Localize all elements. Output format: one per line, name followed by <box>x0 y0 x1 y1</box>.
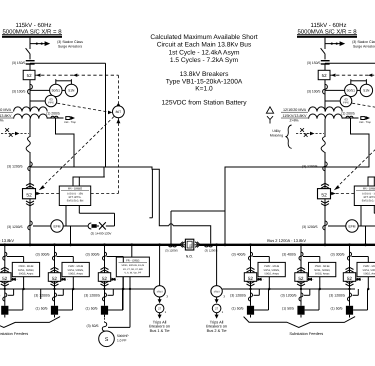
svg-text:Calculated Maximum Available S: Calculated Maximum Available Short <box>150 34 257 41</box>
tie breaker 52 N.O. <box>181 244 186 246</box>
svg-text:Circuit at Each Main 13.8Kv Bu: Circuit at Each Main 13.8Kv Bus <box>157 42 252 49</box>
tie breaker CT left (3) 1200/5 <box>168 245 176 247</box>
feeder at x=4.8 <box>4 246 6 306</box>
feeder CT secondary wire <box>303 256 320 258</box>
svg-text:(3) 50/5: (3) 50/5 <box>86 324 98 328</box>
termination ground wire <box>305 309 319 311</box>
relay box FR-DRG right <box>354 186 375 206</box>
svg-text:52: 52 <box>248 276 254 281</box>
svg-text:Utility: Utility <box>272 129 281 133</box>
termination ground wire <box>8 309 22 311</box>
svg-text:8FT. 8FTG.: 8FT. 8FTG. <box>364 196 375 199</box>
feeder CT <box>249 252 253 260</box>
feeder CT (3) 1200/5 <box>249 293 253 301</box>
svg-text:102/101 - 15N: 102/101 - 15N <box>362 192 375 195</box>
utility source bus left <box>2 33 62 35</box>
svg-text:115KV/13.8KV: 115KV/13.8KV <box>283 114 307 118</box>
feeder breaker 52 <box>0 273 11 282</box>
trip bus wiring right <box>222 288 355 290</box>
feeder at x=54.5 <box>54 246 56 306</box>
svg-text:Kirk - Trap: Kirk - Trap <box>359 121 371 124</box>
feeder CT secondary wire <box>253 256 270 258</box>
wire kirk drop right <box>351 118 370 167</box>
secondary selective tie wiring left <box>105 63 107 167</box>
feeder relay box stub <box>23 277 25 289</box>
dashed 86T trip diagonal to 52 left <box>40 117 114 190</box>
feeder dashed trip arrow <box>307 278 314 280</box>
PT fuse left <box>88 223 91 229</box>
cable termination <box>297 306 304 315</box>
feeder at x=104.5 <box>104 246 106 306</box>
feeder at x=301 <box>300 246 302 306</box>
svg-text:(3) 300/5: (3) 300/5 <box>330 252 344 256</box>
cable termination <box>101 306 108 315</box>
feeder CT <box>299 252 303 260</box>
svg-text:115kV - 60Hz: 115kV - 60Hz <box>16 22 52 29</box>
lockout relay 86T left <box>117 75 119 103</box>
feeder relay box <box>12 262 39 276</box>
svg-text:Bus 2 & Tie: Bus 2 & Tie <box>207 328 227 333</box>
svg-text:(3) 400/5: (3) 400/5 <box>231 252 245 256</box>
feeder dashed trip arrow <box>11 278 18 280</box>
feeder CT (3) 1200/5 <box>348 293 352 301</box>
svg-text:47B/J: 47B/J <box>214 291 220 294</box>
svg-text:12/16/20 MVA: 12/16/20 MVA <box>283 108 307 112</box>
cable termination <box>51 306 58 315</box>
svg-text:51N: 51N <box>68 89 75 93</box>
feeder CT secondary wire <box>57 256 74 258</box>
wire left <box>29 152 31 245</box>
feeder CT secondary stub <box>8 294 14 296</box>
svg-text:(1) 200/5: (1) 200/5 <box>46 112 60 116</box>
svg-text:Bus 2 1200A - 13.8kV: Bus 2 1200A - 13.8kV <box>267 238 306 243</box>
svg-text:50GS, Amps: 50GS, Amps <box>68 273 83 276</box>
svg-text:PWR - MF4k: PWR - MF4k <box>264 265 280 268</box>
svg-text:50GS, Amps: 50GS, Amps <box>264 273 279 276</box>
svg-text:27: 27 <box>158 308 161 311</box>
future-tap dashed arrow right <box>296 133 310 135</box>
cable termination <box>1 306 8 315</box>
feeder dashed trip arrow <box>257 278 264 280</box>
feeder drawout chevrons <box>1 267 9 269</box>
svg-text:52: 52 <box>27 73 32 78</box>
CT (3) 150/5 right <box>321 60 330 62</box>
feeder at x=250.5 <box>250 246 252 306</box>
svg-text:(1) 50/5: (1) 50/5 <box>85 307 97 311</box>
svg-text:Bus 1 & Tie: Bus 1 & Tie <box>150 328 170 333</box>
dashed 63FPX to 86T right <box>352 103 375 112</box>
svg-text:50/51, 50/GN,: 50/51, 50/GN, <box>264 269 280 272</box>
svg-text:Type VB1-15-20kA-1200A: Type VB1-15-20kA-1200A <box>166 78 243 85</box>
feeder CT <box>3 252 7 260</box>
svg-text:PWR - MF4k: PWR - MF4k <box>68 265 84 268</box>
winding config brace right <box>286 125 292 148</box>
feeder drawout chevrons <box>346 267 354 269</box>
dashed control line from breaker left <box>35 74 118 76</box>
winding wye symbol right <box>267 116 273 123</box>
substation feeders brace right <box>244 317 356 328</box>
CT (3) 1200/5 upper right <box>323 162 327 171</box>
svg-text:FR - DRBG: FR - DRBG <box>363 187 375 191</box>
wire right <box>324 63 326 70</box>
breaker 52 115kV left <box>23 70 35 79</box>
svg-text:47B/J: 47B/J <box>157 291 163 294</box>
svg-text:FPX: FPX <box>343 101 349 105</box>
CT (3) 150/5 left <box>26 60 35 62</box>
feeder CT secondary wire <box>352 256 369 258</box>
relay box stubs right <box>360 206 362 227</box>
svg-text:Z=8%: Z=8% <box>290 119 299 123</box>
feeder relay box stub <box>268 277 270 289</box>
svg-text:52: 52 <box>321 192 327 198</box>
feeder relay box <box>309 262 336 276</box>
dashed 86T trip diagonal to 52 right <box>335 117 375 190</box>
relay 51N left <box>65 84 77 96</box>
svg-text:FR - DRBG: FR - DRBG <box>68 187 82 191</box>
termination ground wire <box>58 309 72 311</box>
bus 1 <box>0 244 181 246</box>
breaker 52 main 13.8kV left <box>23 189 36 199</box>
wire below transformer left <box>29 119 31 137</box>
svg-text:(1) 200/5: (1) 200/5 <box>341 112 355 116</box>
feeder CT secondary stub <box>254 294 260 296</box>
svg-text:102/101 - 15N: 102/101 - 15N <box>67 192 83 195</box>
svg-text:1.0 PF: 1.0 PF <box>117 339 126 343</box>
feeder CT <box>348 252 352 260</box>
feeder relay box <box>258 262 285 276</box>
wire CT tap to relay maze left <box>30 62 106 64</box>
svg-text:12/16/20 MVA: 12/16/20 MVA <box>0 108 12 112</box>
svg-text:52: 52 <box>52 276 58 281</box>
relay 51N right <box>360 84 372 96</box>
bus 1 main relay box <box>131 246 133 257</box>
utility source bus right <box>297 33 357 35</box>
cable termination <box>346 306 353 315</box>
svg-text:(3) 150/5: (3) 150/5 <box>307 61 321 65</box>
svg-text:EPM: EPM <box>54 224 61 228</box>
PT feed wire left <box>114 213 116 226</box>
svg-text:(3) 1200/5: (3) 1200/5 <box>329 294 345 298</box>
svg-text:52: 52 <box>322 73 327 78</box>
feeder CT (3) 1200/5 <box>103 293 107 301</box>
svg-text:(3) 1200/5: (3) 1200/5 <box>84 294 100 298</box>
svg-text:1st Cycle - 12.4kA Asym: 1st Cycle - 12.4kA Asym <box>168 49 240 56</box>
svg-text:50/51.51G. BN: 50/51.51G. BN <box>362 200 375 203</box>
svg-text:N.O.: N.O. <box>186 255 193 259</box>
svg-text:(1) 50/5: (1) 50/5 <box>231 307 243 311</box>
svg-text:(3) 150/5: (3) 150/5 <box>12 61 26 65</box>
metering branch with EPM right <box>328 225 346 227</box>
svg-text:Substation Feeders: Substation Feeders <box>0 331 28 336</box>
svg-text:(3) 100/5: (3) 100/5 <box>12 89 26 93</box>
dashed trip line to main breaker left <box>36 193 60 195</box>
svg-text:52: 52 <box>347 276 353 281</box>
wire kirk drop left <box>56 118 75 167</box>
feeder at x=349.5 <box>349 246 351 306</box>
drawout chevrons right <box>321 183 329 185</box>
termination ground wire <box>108 309 122 311</box>
feeder CT secondary wire <box>7 256 24 258</box>
svg-text:52: 52 <box>189 244 193 248</box>
svg-text:(3) 400/5: (3) 400/5 <box>282 252 296 256</box>
cable squiggle right <box>321 137 325 153</box>
svg-text:(3) 300/5: (3) 300/5 <box>35 252 49 256</box>
wire CT tap to relay maze right <box>325 62 375 64</box>
svg-text:52: 52 <box>298 276 304 281</box>
svg-text:Metering: Metering <box>270 134 283 138</box>
svg-text:(3) 1200/5: (3) 1200/5 <box>165 248 178 252</box>
wire left <box>29 80 31 112</box>
breaker 52 115kV right <box>318 70 330 79</box>
svg-text:Surge Arrestors: Surge Arrestors <box>353 44 375 48</box>
svg-text:115KV/13.8KV: 115KV/13.8KV <box>0 114 12 118</box>
feeder dashed trip arrow <box>356 278 363 280</box>
disconnect switch right <box>321 48 325 54</box>
svg-text:13.8kV Breakers: 13.8kV Breakers <box>180 71 229 78</box>
feeder drawout chevrons <box>247 267 255 269</box>
tie breaker CT right (3) 1200/5 <box>204 245 212 247</box>
termination ground wire <box>353 309 367 311</box>
svg-text:(3) 1200/5: (3) 1200/5 <box>281 294 297 298</box>
svg-text:1.5 Cycles - 7.2kA Sym: 1.5 Cycles - 7.2kA Sym <box>170 57 239 64</box>
svg-text:Bus 1 1200A - 13.8kV: Bus 1 1200A - 13.8kV <box>0 238 14 243</box>
wire right <box>324 80 326 112</box>
surge arrestor branch left <box>30 43 49 45</box>
svg-text:FR - GRB3: FR - GRB3 <box>126 259 140 262</box>
svg-text:V, A, W, Var, PF: V, A, W, Var, PF <box>124 272 141 275</box>
transformer T left 12/16/20 MVA <box>14 107 48 112</box>
motor M1 5000HP <box>99 331 115 347</box>
feeder dashed trip arrow <box>111 278 118 280</box>
svg-text:50/51, 50/GN,: 50/51, 50/GN, <box>68 269 84 272</box>
relay circle link left <box>62 89 65 91</box>
svg-text:27: 27 <box>215 308 218 311</box>
svg-text:EPM: EPM <box>349 224 356 228</box>
feeder relay box stub <box>72 277 74 289</box>
svg-text:51N: 51N <box>363 89 370 93</box>
relay box FR-DRG left <box>59 186 90 206</box>
feeder relay box stub <box>122 277 124 289</box>
secondary selective tie wiring right <box>368 176 375 178</box>
CT (3) 1200/5 upper left <box>28 162 32 171</box>
feeder CT secondary stub <box>58 294 64 296</box>
svg-text:(1) 50/5: (1) 50/5 <box>330 307 342 311</box>
svg-text:52: 52 <box>102 276 108 281</box>
svg-text:PWR - MF4k: PWR - MF4k <box>315 265 331 268</box>
svg-text:(3) 1200/5: (3) 1200/5 <box>7 164 23 168</box>
svg-text:FPX: FPX <box>48 101 54 105</box>
feeder relay box stub <box>367 277 369 289</box>
CT (3) 100/5 right <box>323 84 328 94</box>
feeder CT (3) 1200/5 <box>53 293 57 301</box>
svg-text:(1) 50/5: (1) 50/5 <box>35 307 47 311</box>
svg-text:50GS, Amps: 50GS, Amps <box>19 273 34 276</box>
svg-text:Kirk - Trap: Kirk - Trap <box>64 121 76 124</box>
wire main vertical top left <box>29 38 31 49</box>
svg-text:(3) 1200/5: (3) 1200/5 <box>7 225 23 229</box>
svg-text:PWR - MF4k: PWR - MF4k <box>363 265 375 268</box>
dashed 63FPX to 86T left <box>57 103 108 112</box>
svg-text:52: 52 <box>26 192 32 198</box>
cable squiggle left <box>26 137 30 153</box>
wire main vertical top right <box>324 38 326 49</box>
feeder relay box <box>357 262 375 276</box>
feeder breaker 52 <box>295 273 307 282</box>
breaker 52 main 13.8kV right <box>318 189 331 199</box>
CT (3) 1200/5 lower right <box>323 221 327 230</box>
svg-text:Surge Arrestors: Surge Arrestors <box>58 44 83 48</box>
svg-text:(3) 1200/5: (3) 1200/5 <box>34 294 50 298</box>
dashed trip line to main breaker right <box>331 193 355 195</box>
svg-text:50/51: 50/51 <box>52 89 60 93</box>
CT (3) 1200/5 lower left <box>28 221 32 230</box>
svg-text:K=1.0: K=1.0 <box>195 86 213 93</box>
svg-text:125VDC from Station Battery: 125VDC from Station Battery <box>161 100 247 107</box>
svg-text:(3) 1200/5: (3) 1200/5 <box>230 294 246 298</box>
wire left <box>29 63 31 70</box>
svg-text:50/51, 50/GN,: 50/51, 50/GN, <box>18 269 34 272</box>
trip stub <box>40 289 42 299</box>
feeder CT <box>103 252 107 260</box>
surge arrestor branch right <box>325 43 344 45</box>
relay wiring right <box>325 89 345 91</box>
feeder breaker 52 <box>343 273 355 282</box>
feeder CT (3) 1200/5 <box>299 293 303 301</box>
relay 63 FPX left <box>30 100 45 102</box>
bus 2 undervoltage relay stack <box>216 246 218 286</box>
svg-text:Z=8%: Z=8% <box>0 119 3 123</box>
svg-text:(3) 14400-120V: (3) 14400-120V <box>91 232 112 236</box>
svg-text:52: 52 <box>2 276 8 281</box>
trip bus wiring left <box>0 288 154 290</box>
feeder CT secondary stub <box>304 294 310 296</box>
motor feeder cable <box>104 315 106 323</box>
wire right <box>324 152 326 245</box>
svg-text:PWR - MF4k: PWR - MF4k <box>19 265 35 268</box>
disconnect switch left <box>26 48 30 54</box>
PT disconnect X left <box>99 222 106 229</box>
relay box stubs left <box>65 206 67 227</box>
feeder CT secondary stub <box>108 294 114 296</box>
svg-text:(3) 1200/5: (3) 1200/5 <box>205 248 218 252</box>
future-tap dashed arrow left <box>1 133 15 135</box>
motor CT (3) 50/5 <box>102 322 106 331</box>
svg-text:8FT. 8FTG.: 8FT. 8FTG. <box>69 196 82 199</box>
feeder drawout chevrons <box>51 267 59 269</box>
svg-text:(3) 1200/5: (3) 1200/5 <box>302 164 318 168</box>
svg-text:(3) 1200/5: (3) 1200/5 <box>302 225 318 229</box>
feeder relay box stub <box>319 277 321 289</box>
feeder CT <box>53 252 57 260</box>
bus 1 undervoltage relay stack <box>159 246 161 286</box>
relay circle link right <box>357 89 360 91</box>
feeder drawout chevrons <box>101 267 109 269</box>
feeder breaker 52 <box>48 273 60 282</box>
feeder breaker 52 <box>98 273 110 282</box>
svg-text:50/51, 50/51G, 43,45: 50/51, 50/51G, 43,45 <box>122 264 145 267</box>
feeder CT secondary stub <box>353 294 359 296</box>
dashed control line from breaker right <box>330 74 375 76</box>
svg-text:(1) 50/5: (1) 50/5 <box>282 307 294 311</box>
CT (3) 100/5 left <box>28 84 33 94</box>
svg-text:50GS, Amps: 50GS, Amps <box>315 273 330 276</box>
feeder breaker 52 <box>244 273 256 282</box>
wire below transformer right <box>324 119 326 137</box>
drawout chevrons left <box>26 183 34 185</box>
svg-text:81, 27, 59, 47, BN: 81, 27, 59, 47, BN <box>123 268 143 271</box>
feeder dashed trip arrow <box>61 278 68 280</box>
transformer T right 12/16/20 MVA <box>309 107 343 112</box>
winding delta symbol right <box>266 107 273 113</box>
feeder relay box <box>62 262 89 276</box>
svg-text:(3) 300/5: (3) 300/5 <box>85 252 99 256</box>
svg-text:Substation Feeders: Substation Feeders <box>289 331 323 336</box>
relay 50/51 left <box>50 84 62 96</box>
feeder CT secondary wire <box>107 256 124 258</box>
bus 2 <box>200 244 375 246</box>
svg-text:50/51, 50/GN,: 50/51, 50/GN, <box>314 269 330 272</box>
relay wiring left <box>30 89 50 91</box>
svg-text:(3) 100/5: (3) 100/5 <box>307 89 321 93</box>
cable termination <box>247 306 254 315</box>
svg-text:S: S <box>105 337 109 343</box>
substation feeders brace left <box>0 317 60 328</box>
feeder CT (3) 1200/5 <box>3 293 7 301</box>
svg-text:50/51: 50/51 <box>347 89 355 93</box>
relay 63 FPX right <box>325 100 340 102</box>
metering branch with EPM left <box>33 225 51 227</box>
svg-text:50GS, Amps: 50GS, Amps <box>363 273 375 276</box>
feeder drawout chevrons <box>297 267 305 269</box>
svg-text:86T: 86T <box>116 110 122 114</box>
relay 50/51 right <box>345 84 357 96</box>
svg-text:50/51, 50/GN,: 50/51, 50/GN, <box>363 269 375 272</box>
svg-text:50/51.51G. BN: 50/51.51G. BN <box>67 200 84 203</box>
svg-text:115kV - 60Hz: 115kV - 60Hz <box>311 22 347 29</box>
bus junction dots <box>29 243 32 246</box>
termination ground wire <box>254 309 268 311</box>
